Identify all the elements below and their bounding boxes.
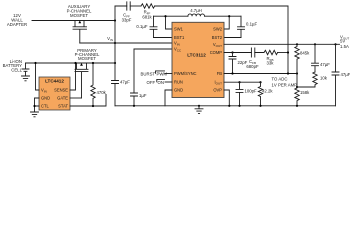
svg-text:845k: 845k (300, 51, 310, 56)
wire battery line (26, 62, 116, 64)
svg-text:SENSE: SENSE (54, 88, 68, 93)
wire SW2 riser (224, 16, 229, 29)
resistor R 470k (91, 62, 107, 106)
capacitor COUT 47uF (332, 43, 350, 106)
svg-text:33k: 33k (267, 61, 275, 66)
switch PWM/SYNC select (141, 71, 173, 77)
svg-text:MOSFET: MOSFET (78, 56, 96, 61)
capacitor C VCC 1uF (131, 49, 147, 106)
wire OVP to ground (224, 90, 229, 106)
svg-text:1.5A: 1.5A (340, 44, 349, 49)
wire FB line (224, 73, 297, 75)
svg-text:LTC4412: LTC4412 (45, 79, 64, 84)
wire LTC4412 GND/CTL (35, 98, 40, 112)
switch RUN on/off (147, 79, 173, 85)
capacitor BST2 0.1uF (224, 16, 257, 37)
svg-text:OVP: OVP (213, 88, 222, 93)
wire BST1 lead (154, 37, 173, 39)
wire FF/comp vertical (287, 6, 289, 74)
svg-text:BST1: BST1 (174, 35, 185, 40)
svg-text:5V: 5V (340, 38, 345, 43)
wire VCC pin line (134, 48, 172, 50)
svg-text:GATE: GATE (57, 96, 68, 101)
svg-text:MOSFET: MOSFET (70, 13, 88, 18)
svg-text:CELL: CELL (11, 67, 22, 72)
svg-text:BURST: BURST (141, 72, 156, 77)
svg-text:10k: 10k (320, 76, 328, 81)
resistor 10k (297, 72, 328, 87)
svg-text:PWM/SYNC: PWM/SYNC (174, 71, 197, 76)
ground symbol center (195, 105, 203, 114)
wire VIN vertical column (114, 6, 116, 80)
svg-text:BST2: BST2 (212, 35, 223, 40)
capacitor BST1 0.1uF (136, 16, 157, 37)
capacitor 22pF (229, 53, 248, 74)
node TO ADC label (272, 77, 298, 88)
svg-text:STAT: STAT (58, 104, 68, 109)
capacitor 100pF (236, 81, 257, 107)
svg-text:0.1µF: 0.1µF (136, 24, 147, 29)
wire GATE riser (70, 97, 82, 99)
svg-text:FB: FB (217, 71, 223, 76)
svg-text:1V PER AMP: 1V PER AMP (272, 83, 298, 88)
svg-text:OFF: OFF (147, 80, 156, 85)
svg-text:47µF: 47µF (341, 72, 350, 77)
node 12V wall adapter label (7, 13, 27, 27)
node VOUT label (340, 35, 349, 49)
svg-text:CTL: CTL (41, 104, 49, 109)
capacitor CIN 47uF (112, 80, 131, 106)
wire SW1 riser (166, 16, 173, 29)
resistor 42.2k (258, 81, 273, 107)
capacitor CFB 680pF (246, 48, 259, 69)
svg-text:681k: 681k (142, 15, 152, 20)
wire VIN pin line (115, 42, 172, 44)
svg-text:ADAPTER: ADAPTER (7, 22, 27, 27)
svg-text:47µF: 47µF (320, 62, 330, 67)
svg-text:1µF: 1µF (139, 93, 147, 98)
inductor L1 4.7uH (188, 8, 205, 16)
wire GND pin (165, 90, 172, 106)
resistor 158k (295, 87, 310, 107)
wire SW node top line (154, 15, 242, 17)
svg-text:SW2: SW2 (213, 27, 223, 32)
svg-text:ON: ON (158, 80, 164, 85)
svg-text:158k: 158k (300, 90, 310, 95)
svg-text:33pF: 33pF (122, 18, 132, 23)
wire FB node to 158k (296, 74, 298, 88)
svg-text:PWM: PWM (157, 72, 168, 77)
svg-text:LTC3112: LTC3112 (187, 53, 206, 58)
resistor RFB 33k (264, 50, 288, 65)
node VIN junction dots (114, 19, 116, 21)
svg-text:470k: 470k (97, 90, 107, 95)
transistor primary P-channel MOSFET (75, 48, 100, 98)
resistor 845k (295, 43, 310, 73)
svg-text:SW1: SW1 (174, 27, 184, 32)
svg-text:100pF: 100pF (245, 89, 258, 94)
ground battery (22, 76, 30, 81)
IC U1 LTC3112 (172, 22, 224, 97)
svg-text:680pF: 680pF (246, 64, 259, 69)
svg-text:GND: GND (174, 88, 183, 93)
capacitor 47uF (mid) (312, 43, 331, 72)
IC U2 LTC4412 (39, 77, 70, 110)
svg-text:TO ADC: TO ADC (272, 77, 288, 82)
svg-text:47µF: 47µF (120, 80, 130, 85)
wire adapter line (32, 20, 115, 22)
ground LTC4412 (31, 112, 39, 117)
svg-text:42.2k: 42.2k (262, 89, 273, 94)
ground rail (115, 105, 336, 107)
wire IOUT line (224, 81, 261, 83)
resistor RFF 681k (141, 4, 155, 20)
svg-text:0.1µF: 0.1µF (246, 22, 257, 27)
wire COMP line (224, 52, 264, 54)
svg-text:RUN: RUN (174, 80, 183, 85)
wire STAT line (70, 95, 106, 107)
wire feedforward top line (115, 5, 288, 7)
wire LTC4412 VIN (36, 63, 40, 90)
wire aux gate to VIN node (80, 42, 115, 44)
svg-text:COMP: COMP (210, 50, 223, 55)
svg-text:GND: GND (41, 96, 50, 101)
svg-text:4.7µH: 4.7µH (190, 8, 202, 13)
transistor auxiliary P-channel MOSFET (67, 4, 92, 43)
wire VOUT rail (224, 43, 340, 45)
battery Li-Ion cell (3, 59, 29, 76)
capacitor CFF 33pF (122, 2, 141, 23)
wire SENSE riser (70, 63, 76, 90)
